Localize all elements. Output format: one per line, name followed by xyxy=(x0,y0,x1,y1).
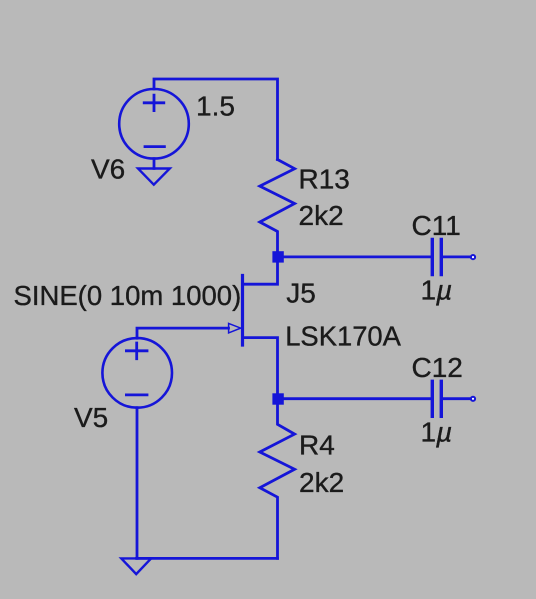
ground at bottom xyxy=(121,558,151,574)
V6 minus sign xyxy=(145,145,164,148)
JFET J5 source lead xyxy=(244,338,278,394)
svg-text:1µ: 1µ xyxy=(421,274,453,305)
ground under V6 xyxy=(138,169,170,185)
JFET J5 gate arrow xyxy=(229,323,241,333)
svg-text:J5: J5 xyxy=(286,278,316,309)
V5 minus sign xyxy=(126,393,147,396)
wire C12 to port xyxy=(443,397,470,400)
svg-text:R13: R13 xyxy=(299,164,350,195)
svg-text:LSK170A: LSK170A xyxy=(285,321,401,352)
svg-text:1µ: 1µ xyxy=(421,416,453,447)
svg-text:2k2: 2k2 xyxy=(299,467,344,498)
V6 plus sign xyxy=(144,95,164,111)
resistor R13 xyxy=(260,160,295,253)
wire V5 bottom xyxy=(136,408,139,559)
svg-text:SINE(0 10m 1000): SINE(0 10m 1000) xyxy=(14,280,242,311)
resistor R4 xyxy=(260,405,295,559)
output port circle (C11 right) xyxy=(471,255,475,259)
svg-text:C12: C12 xyxy=(412,352,463,383)
node N2 junction square xyxy=(272,393,283,404)
bottom wire R4 to ground xyxy=(137,557,278,560)
capacitor C11 plates xyxy=(432,240,441,275)
node N1 junction square xyxy=(272,251,283,262)
wire V6 bottom stub xyxy=(153,159,156,169)
svg-text:2k2: 2k2 xyxy=(299,200,344,231)
output port circle (C12 right) xyxy=(471,397,475,401)
capacitor C12 plates xyxy=(432,381,441,416)
svg-text:V5: V5 xyxy=(74,402,108,433)
svg-text:C11: C11 xyxy=(412,210,461,241)
wire node N2 to C12 xyxy=(283,397,431,400)
wire node N1 to C11 xyxy=(283,255,431,258)
svg-text:R4: R4 xyxy=(299,430,335,461)
JFET J5 drain lead xyxy=(244,263,278,285)
voltage source V5 xyxy=(102,338,172,408)
JFET J5 channel bar xyxy=(241,276,244,346)
wire V5 top to gate xyxy=(137,328,229,338)
svg-text:1.5: 1.5 xyxy=(196,90,235,121)
V5 plus sign xyxy=(126,343,147,359)
svg-text:V6: V6 xyxy=(91,154,125,185)
wire C11 to port xyxy=(443,255,470,258)
wire V6 top to R13 xyxy=(154,79,278,160)
voltage source V6 xyxy=(119,89,189,159)
